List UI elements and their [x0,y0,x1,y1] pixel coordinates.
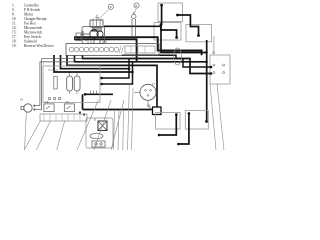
svg-text:10: 10 [212,51,216,55]
wire bar1 [85,93,113,95]
svg-text:15.: 15. [12,31,17,35]
wire controller terminal loop 1 [102,59,130,79]
svg-text:15: 15 [66,100,70,104]
wire band y65.4 [67,55,157,107]
terminal strip [40,114,87,121]
svg-text:6: 6 [110,5,112,9]
box top-right A [158,3,183,22]
thin verticals right of cluster [114,110,124,150]
svg-text:Key Switch: Key Switch [24,35,41,39]
svg-text:8: 8 [135,4,137,8]
box top-right C [186,25,212,42]
microswitch 15 [64,104,74,112]
svg-text:Reverse Wrn Device: Reverse Wrn Device [24,44,54,48]
callout circle 6 [108,4,113,9]
box D terminals [213,64,225,74]
wire band y61.8 [75,55,207,62]
bar1 terminal ticks [91,91,97,95]
motor body finned box [66,44,159,56]
wire bar2 [83,109,153,111]
svg-text:8.: 8. [12,13,15,17]
box E bottom right [156,113,181,130]
svg-text:19.: 19. [12,44,17,48]
wire controller terminal loop 2 [102,62,133,84]
callout circle 8 [134,3,139,8]
svg-text:11.: 11. [12,22,16,26]
fuse box with X [98,121,107,131]
receptacle component [132,14,136,18]
svg-text:14.: 14. [12,26,17,30]
wire long right vertical [206,40,208,122]
wire band y68.7 [61,55,130,69]
wire bottom-right t2 [178,113,189,144]
box D charger receptacle [210,55,230,84]
svg-text:Microswitch: Microswitch [24,26,42,30]
box F bottom right [185,110,208,129]
svg-text:18: 18 [147,104,151,108]
svg-text:5.: 5. [12,8,15,12]
motor fins circles [69,47,119,52]
wire band y58.5 [83,55,212,74]
svg-text:14: 14 [45,100,49,104]
thin drops from loops [128,84,134,150]
wire bar vertical [82,94,84,109]
fuse cluster outline [86,118,113,148]
controller narrow part [54,77,57,90]
svg-text:19: 19 [20,98,24,102]
box top-right B [154,23,181,41]
microswitch 14 [44,104,54,112]
wire bottom-right t1 [159,115,176,135]
mechanism base ticks [88,40,106,44]
svg-text:Controller: Controller [24,4,40,8]
brush arm [83,31,100,44]
svg-text:11: 11 [94,118,97,122]
solenoid bold box [153,107,162,115]
cluster oval [90,133,103,139]
key switch circle [140,84,156,100]
legend list [12,4,54,49]
leader diagonals bottom left [24,120,65,150]
svg-text:Motor: Motor [24,13,34,17]
wire box A to box C [178,15,199,36]
wire cap feed [104,26,207,52]
svg-text:F R Switch: F R Switch [24,8,40,12]
wire box B internal [161,25,177,38]
motor right inner rect [125,46,155,53]
svg-text:1.: 1. [12,4,15,8]
motor hatch [119,46,124,54]
wire heavy motor feed 1 [74,37,202,55]
cluster lower box [92,141,105,147]
buzzer leader [25,112,27,150]
controller coil 2 [74,76,80,91]
leader diagonals bottom middle [77,100,98,150]
fr switch mechanism circles [93,28,102,32]
svg-text:Fse Box: Fse Box [24,22,36,26]
fr switch cap [90,20,103,27]
controller small parts [48,70,77,100]
svg-text:Microswitch: Microswitch [24,31,42,35]
svg-text:Solenoid: Solenoid [24,40,37,44]
wire box A vertical [161,5,163,25]
controller box [43,66,100,103]
svg-text:10.: 10. [12,17,17,21]
svg-text:17.: 17. [12,35,17,39]
wire band stub to oval [122,55,211,67]
wire band y72 [54,55,133,72]
svg-text:17: 17 [152,82,156,86]
motor assembly outline [82,27,105,44]
leader diagonals bottom right [210,84,224,150]
wire box C to box D thin [213,36,215,55]
wire heavy motor feed 2 [74,39,137,62]
controller coil 1 [67,76,73,91]
svg-text:Charger Recept.: Charger Recept. [24,17,47,21]
buzzer circle [24,104,32,112]
svg-text:18.: 18. [12,40,17,44]
bundle oval [174,48,182,65]
buzzer drop wires [34,59,41,110]
